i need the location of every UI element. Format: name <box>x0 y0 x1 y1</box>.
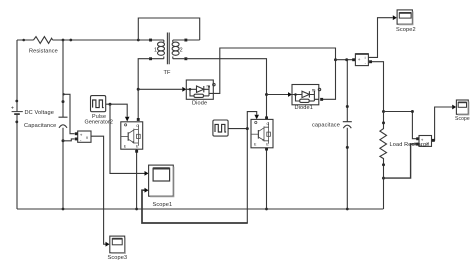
wire TF primary bottom to IGBT1 collector <box>138 59 150 119</box>
svg-text:+: + <box>11 106 14 112</box>
node junction output bus <box>334 58 337 61</box>
svg-text:Scope: Scope <box>455 116 470 122</box>
wire TF secondary bottom to IGBT2 collector <box>186 59 267 118</box>
wire CM signal to Scope2 <box>368 18 392 58</box>
wire Pulse Generator2 to IGBT1 gate <box>106 104 128 117</box>
svg-text:1: 1 <box>154 48 157 54</box>
Scope3 block <box>110 236 125 253</box>
wire Diode cathode up and across <box>213 48 335 99</box>
node junction load top <box>382 110 385 113</box>
svg-text:+: + <box>358 57 361 62</box>
node cap top port <box>62 100 65 103</box>
wire VM2 to Scope <box>433 107 452 140</box>
wire bypass loop over transformer <box>138 18 199 40</box>
node junction Diode1 input <box>265 93 268 96</box>
Scope2 block <box>397 10 413 25</box>
wire load bottom to rail <box>383 178 385 209</box>
wire bottom rail <box>17 208 383 210</box>
wire pulse signal to Scope1 input1 <box>110 104 145 173</box>
svg-text:Diode1: Diode1 <box>295 105 313 111</box>
wire output bus to current measurement <box>336 59 354 61</box>
node junction loop <box>137 39 140 42</box>
current measurement block <box>355 54 368 66</box>
Pulse Generator (second, unlabeled) block <box>213 120 228 136</box>
node cap bottom port <box>62 139 65 142</box>
wire VM1 output to Scope3 <box>91 136 106 244</box>
VM2 voltage measurement block <box>419 136 432 147</box>
Diode block <box>186 80 215 99</box>
svg-text:2: 2 <box>180 48 183 54</box>
svg-text:C: C <box>267 122 270 126</box>
IGBT2 block <box>251 119 273 147</box>
node dot after rail <box>22 39 25 42</box>
transformer TF <box>149 33 187 65</box>
IGBT2 emitter wire to rail <box>266 148 268 209</box>
svg-text:DC Voltage: DC Voltage <box>25 110 55 116</box>
IGBT1 emitter wire to rail <box>136 149 138 209</box>
Pulse Generator2 block <box>91 96 106 112</box>
node cap to rail <box>62 208 65 211</box>
wire left rail <box>16 40 18 209</box>
wire Scope1 input2 from pulse2 <box>246 129 248 223</box>
svg-text:TF: TF <box>164 70 172 76</box>
svg-text:Generator2: Generator2 <box>85 120 113 126</box>
svg-text:m: m <box>312 87 316 92</box>
Diode1 block <box>292 85 321 105</box>
capacitor branch (Capacitance) wire <box>59 40 68 209</box>
node capacitor top on bus <box>345 58 348 61</box>
svg-text:Resistance: Resistance <box>29 48 58 54</box>
node junction pulse2 <box>246 127 249 130</box>
wire pulse2 to IGBT2 gate <box>228 112 257 129</box>
node junction pulse signal <box>109 103 112 106</box>
node dot capacitance branch <box>62 39 65 42</box>
svg-text:Scope2: Scope2 <box>396 27 416 33</box>
Scope block <box>456 100 468 115</box>
svg-text:m: m <box>207 83 211 88</box>
svg-text:C: C <box>136 124 139 128</box>
IGBT1 block <box>121 122 143 149</box>
svg-text:Capacitance: Capacitance <box>24 123 56 129</box>
node junction load bottom <box>382 177 385 180</box>
wire top from rail to resistor <box>17 39 34 41</box>
wire load bottom to VM2 minus <box>384 144 418 178</box>
resistor R (Resistance) <box>34 37 53 44</box>
wire to Diode1 input <box>267 94 289 96</box>
svg-text:Scope3: Scope3 <box>108 255 128 261</box>
svg-text:capacitace: capacitace <box>312 123 340 129</box>
wire to Diode input <box>138 88 182 90</box>
wire to VM2 plus <box>384 112 418 139</box>
load resistor Load Recharge <box>380 112 387 179</box>
DC voltage source battery symbol <box>12 100 23 124</box>
node tap for VM1 plus <box>62 93 64 95</box>
wire VM1 minus tap <box>63 139 75 141</box>
wire CM electrical out down to load <box>371 62 384 112</box>
wire resistor to transformer <box>53 39 151 41</box>
VM1 voltage measurement block <box>75 131 91 142</box>
svg-text:Diode: Diode <box>192 101 207 107</box>
node dot second <box>69 39 72 42</box>
svg-text:Scope1: Scope1 <box>153 202 173 208</box>
Scope1 block <box>149 165 174 197</box>
wire VM1 plus tap <box>64 94 75 133</box>
capacitor capacitace <box>343 60 352 211</box>
svg-text:Load Recharge: Load Recharge <box>390 142 430 148</box>
node junction diode input <box>137 88 140 91</box>
